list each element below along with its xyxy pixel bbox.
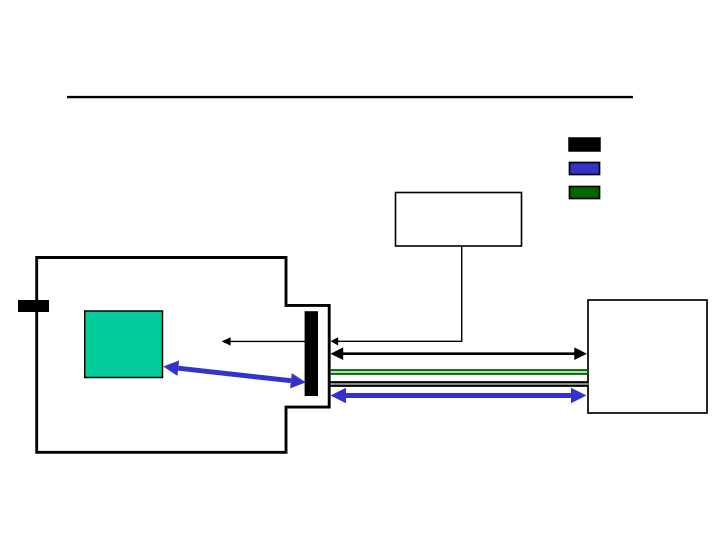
black double-headed arrow shaft xyxy=(341,352,576,355)
diagonal blue beam arrowhead left xyxy=(163,361,179,376)
cryostat enclosure outline with window port xyxy=(37,258,330,453)
window bar xyxy=(305,311,318,396)
black cable line upper xyxy=(331,381,589,383)
right box (electronics unit) xyxy=(588,300,707,413)
legend swatch black xyxy=(569,138,600,151)
black double-headed arrowhead right xyxy=(574,347,587,360)
legend swatch green xyxy=(570,187,600,199)
callout connector arrowhead xyxy=(331,337,339,345)
callout box xyxy=(396,193,522,247)
legend swatch blue xyxy=(570,163,600,175)
black double-headed arrowhead left xyxy=(331,347,344,360)
blue double-headed arrowhead left xyxy=(331,388,347,404)
green fiber line upper xyxy=(330,369,588,371)
blue double-headed arrowhead right xyxy=(571,388,587,404)
title underline xyxy=(67,96,633,98)
internal thin arrow wire xyxy=(231,340,306,342)
feedthrough block on left wall xyxy=(18,300,49,312)
black cable line lower xyxy=(331,385,589,387)
callout connector wire xyxy=(334,247,462,342)
internal thin arrowhead xyxy=(222,337,231,345)
diagonal blue beam arrowhead right xyxy=(290,373,306,388)
green fiber line lower xyxy=(330,373,588,375)
black cable core gray xyxy=(331,383,589,385)
diagonal blue beam arrow shaft xyxy=(178,368,291,381)
blue double-headed arrow shaft xyxy=(344,393,573,398)
sample box (teal) xyxy=(85,311,163,378)
